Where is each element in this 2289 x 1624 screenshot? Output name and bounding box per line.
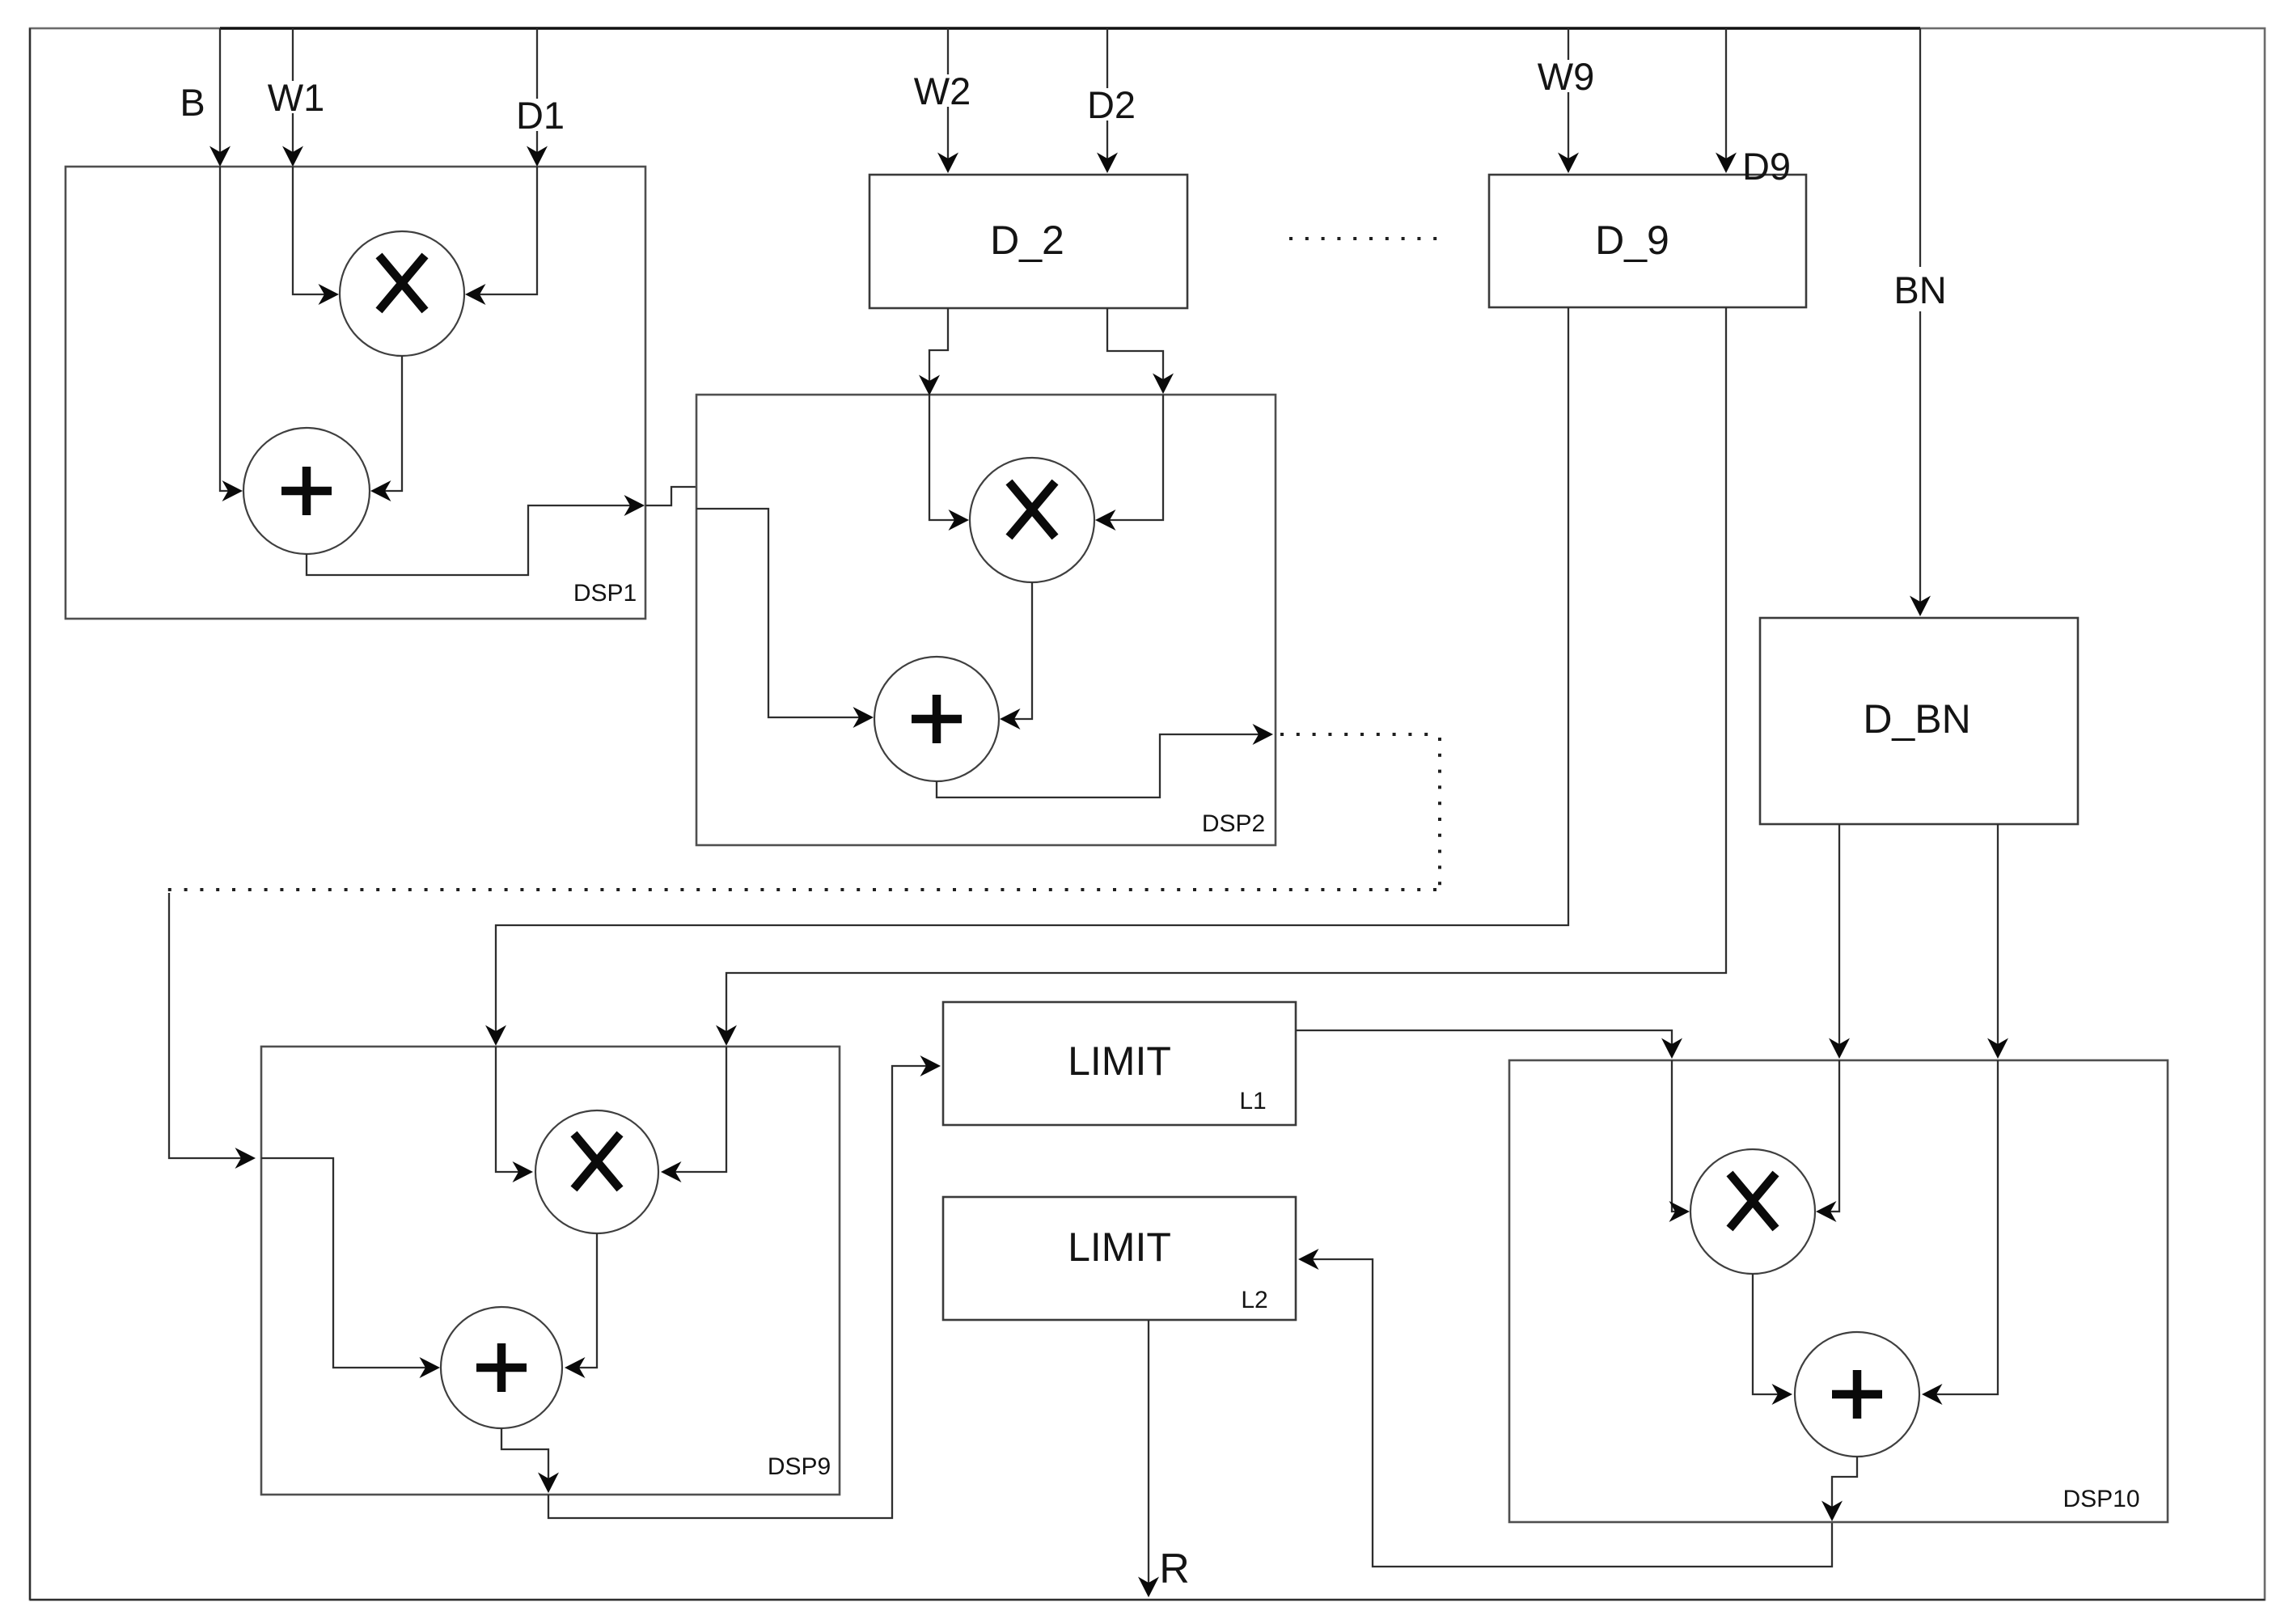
top bus wire — [220, 27, 1920, 29]
multiplier X (DSP2) — [970, 458, 1094, 582]
svg-text:LIMIT: LIMIT — [1068, 1224, 1171, 1270]
multiplier X (DSP9) — [535, 1110, 658, 1233]
wire input B — [219, 28, 221, 165]
svg-text:D_BN: D_BN — [1863, 696, 1970, 742]
adder + (DSP10) — [1795, 1332, 1919, 1457]
LIMIT box L2 — [943, 1197, 1296, 1320]
dots between D_2 and D_9 — [1289, 237, 1445, 240]
node label W9 — [1533, 60, 1599, 92]
node label W1 — [265, 81, 327, 113]
svg-text:D9: D9 — [1742, 145, 1791, 188]
wire X out to + (DSP1) — [373, 356, 402, 491]
wire + out of DSP1 — [307, 505, 642, 575]
wire DSP9 out to LIMIT L1 — [548, 1066, 938, 1518]
bottom border emphasis — [30, 1599, 2265, 1601]
wire + out of DSP2 — [937, 734, 1271, 797]
wire W9 column to DSP9 — [496, 307, 1568, 1043]
wire X out to + (DSP10) — [1753, 1274, 1790, 1394]
wire into + right (DSP10) — [1924, 1060, 1998, 1394]
wire input W2 — [947, 28, 949, 171]
wire D1 to X (DSP1) — [468, 167, 537, 294]
wire feed to + left (DSP9) — [261, 1158, 438, 1368]
svg-text:L1: L1 — [1239, 1088, 1266, 1114]
svg-text:R: R — [1159, 1546, 1190, 1592]
wire into X right (DSP2) — [1098, 395, 1163, 520]
svg-text:BN: BN — [1893, 269, 1946, 311]
wire L2 out R — [1148, 1320, 1149, 1595]
svg-text:W2: W2 — [914, 70, 971, 112]
adder + (DSP2) — [874, 657, 999, 781]
svg-text:L2: L2 — [1241, 1287, 1267, 1313]
wire input D2 — [1106, 28, 1108, 171]
svg-text:W1: W1 — [268, 76, 325, 119]
wire X out to + (DSP2) — [1002, 582, 1032, 719]
node label W2 — [909, 74, 975, 107]
wire input D9 — [1725, 28, 1727, 171]
svg-text:DSP1: DSP1 — [573, 580, 637, 607]
wire into X right (DSP9) — [663, 1047, 726, 1172]
wire jog DSP1 to DSP2 — [645, 487, 696, 505]
register box D_BN — [1760, 618, 2078, 824]
wire into X left (DSP9) — [496, 1047, 531, 1172]
svg-text:LIMIT: LIMIT — [1068, 1038, 1171, 1084]
svg-text:D_9: D_9 — [1595, 218, 1669, 263]
dotted wire vertical — [1438, 738, 1441, 890]
wire dotted chain down to DSP9 — [169, 893, 253, 1158]
adder + (DSP9) — [441, 1307, 562, 1428]
multiplier X (DSP1) — [340, 231, 464, 356]
wire into X left (DSP2) — [929, 395, 967, 520]
wire B to + (DSP1) — [220, 167, 240, 491]
LIMIT box L1 — [943, 1002, 1296, 1125]
svg-text:DSP9: DSP9 — [768, 1453, 831, 1480]
svg-text:D1: D1 — [516, 94, 565, 137]
svg-text:D_2: D_2 — [990, 218, 1064, 263]
wire D9 column to DSP9 — [726, 307, 1726, 1043]
wire input BN — [1919, 28, 1921, 267]
wire into X right (DSP10) — [1818, 1060, 1839, 1212]
wire + out of DSP10 — [1832, 1457, 1857, 1519]
svg-text:W9: W9 — [1538, 55, 1595, 98]
left border emphasis — [29, 28, 31, 1600]
wire input D1 — [536, 28, 538, 165]
multiplier X (DSP10) — [1690, 1149, 1815, 1274]
wire feed to + left (DSP2) — [696, 509, 871, 717]
DSP block DSP10 — [1509, 1060, 2168, 1522]
svg-text:DSP2: DSP2 — [1202, 810, 1265, 837]
svg-text:B: B — [180, 81, 205, 124]
dotted wire long horizontal — [167, 888, 1436, 891]
wire W1 to X (DSP1) — [293, 167, 336, 294]
wire + out of DSP9 — [501, 1428, 548, 1491]
wire X out to + (DSP9) — [567, 1233, 597, 1368]
register box D_9 — [1489, 175, 1806, 307]
svg-text:DSP10: DSP10 — [2063, 1486, 2139, 1512]
DSP block DSP1 — [66, 167, 645, 619]
svg-text:D2: D2 — [1087, 83, 1136, 126]
DSP block DSP2 — [696, 395, 1276, 845]
wire D_BN right out to DSP10 — [1997, 824, 1999, 1056]
dotted wire from DSP2 output — [1280, 733, 1440, 736]
wire into X left (DSP10) — [1672, 1060, 1687, 1212]
DSP block DSP9 — [261, 1047, 840, 1495]
wire input W1 — [292, 28, 294, 165]
wire input W9 — [1568, 28, 1569, 171]
adder + (DSP1) — [243, 428, 370, 554]
wire D_2 right out to DSP2 — [1107, 308, 1163, 391]
wire D_BN left out to DSP10 — [1838, 824, 1840, 1056]
node label D2 — [1083, 88, 1140, 121]
wire L1 out to DSP10 — [1296, 1030, 1672, 1056]
node label D1 — [514, 99, 567, 131]
register box D_2 — [869, 175, 1187, 308]
wire DSP10 out to L2 — [1301, 1259, 1832, 1567]
wire D_2 left out to DSP2 — [929, 308, 948, 393]
